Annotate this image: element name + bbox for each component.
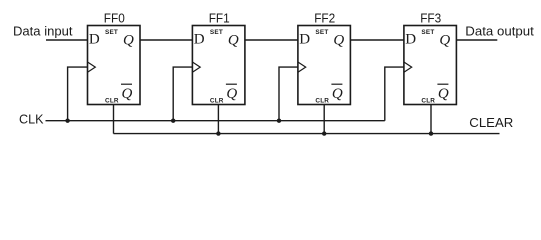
wire FF2 CLR drop xyxy=(323,105,325,134)
wire FF2 Q to FF3 D xyxy=(350,39,404,41)
wire FF3 Q to Data output xyxy=(456,39,497,41)
wire FF0 CLR drop xyxy=(113,105,115,134)
svg-text:CLR: CLR xyxy=(105,97,119,104)
FF2 clock triangle xyxy=(298,62,306,72)
wire FF3 CLR drop xyxy=(430,105,432,134)
svg-text:CLK: CLK xyxy=(19,111,44,126)
svg-text:Q: Q xyxy=(439,33,450,49)
svg-text:D: D xyxy=(89,32,100,48)
FF1 clock triangle xyxy=(192,62,200,72)
wire CLEAR bus xyxy=(114,133,500,135)
junction CLEAR at FF3 drop xyxy=(429,131,433,135)
svg-text:SET: SET xyxy=(210,29,223,36)
junction CLK at FF1 riser xyxy=(171,119,175,123)
wire CLK bus xyxy=(46,120,385,122)
svg-text:CLR: CLR xyxy=(421,97,435,104)
FF0 pin Qbar overline xyxy=(121,83,132,85)
junction CLEAR at FF2 drop xyxy=(322,131,326,135)
svg-text:Q: Q xyxy=(123,33,134,49)
svg-text:CLR: CLR xyxy=(315,97,329,104)
svg-text:FF1: FF1 xyxy=(209,10,230,25)
wire FF1 Q to FF2 D xyxy=(245,39,298,41)
FF0 clock triangle xyxy=(88,62,96,72)
junction CLK at FF2 riser xyxy=(277,119,281,123)
svg-text:SET: SET xyxy=(315,29,328,36)
svg-text:Q: Q xyxy=(333,33,344,49)
FF1 pin Qbar overline xyxy=(226,83,237,85)
junction CLK at FF0 riser xyxy=(65,119,69,123)
wire FF0 Q to FF1 D xyxy=(140,39,192,41)
svg-text:Q: Q xyxy=(438,86,449,102)
flip-flop FF3 box xyxy=(404,26,457,105)
FF3 clock triangle xyxy=(404,62,412,72)
wire CLK riser to FF0 clock xyxy=(68,67,88,121)
wire FF1 CLR drop xyxy=(217,105,219,134)
wire CLK riser to FF2 clock xyxy=(279,67,298,121)
FF2 pin Qbar overline xyxy=(331,83,342,85)
flip-flop FF2 box xyxy=(298,26,351,105)
svg-text:SET: SET xyxy=(105,29,118,36)
svg-text:CLR: CLR xyxy=(210,97,224,104)
svg-text:D: D xyxy=(194,32,205,48)
svg-text:Q: Q xyxy=(226,86,237,102)
svg-text:FF2: FF2 xyxy=(314,10,335,25)
svg-text:D: D xyxy=(299,32,310,48)
svg-text:FF3: FF3 xyxy=(420,10,441,25)
FF3 pin Qbar overline xyxy=(437,83,448,85)
svg-text:SET: SET xyxy=(421,29,434,36)
svg-text:CLEAR: CLEAR xyxy=(469,116,513,130)
svg-text:Data input: Data input xyxy=(13,23,73,38)
wire CLK riser to FF3 clock xyxy=(385,67,404,121)
wire Data input to FF0 D xyxy=(46,39,88,41)
flip-flop FF0 box xyxy=(88,26,141,105)
svg-text:D: D xyxy=(405,32,416,48)
svg-text:Q: Q xyxy=(228,33,239,49)
svg-text:Q: Q xyxy=(122,86,133,102)
wire CLK riser to FF1 clock xyxy=(173,67,192,121)
svg-text:Q: Q xyxy=(332,86,343,102)
svg-text:FF0: FF0 xyxy=(104,10,125,25)
flip-flop FF1 box xyxy=(192,26,245,105)
junction CLEAR at FF1 drop xyxy=(216,131,220,135)
svg-text:Data output: Data output xyxy=(465,23,534,38)
